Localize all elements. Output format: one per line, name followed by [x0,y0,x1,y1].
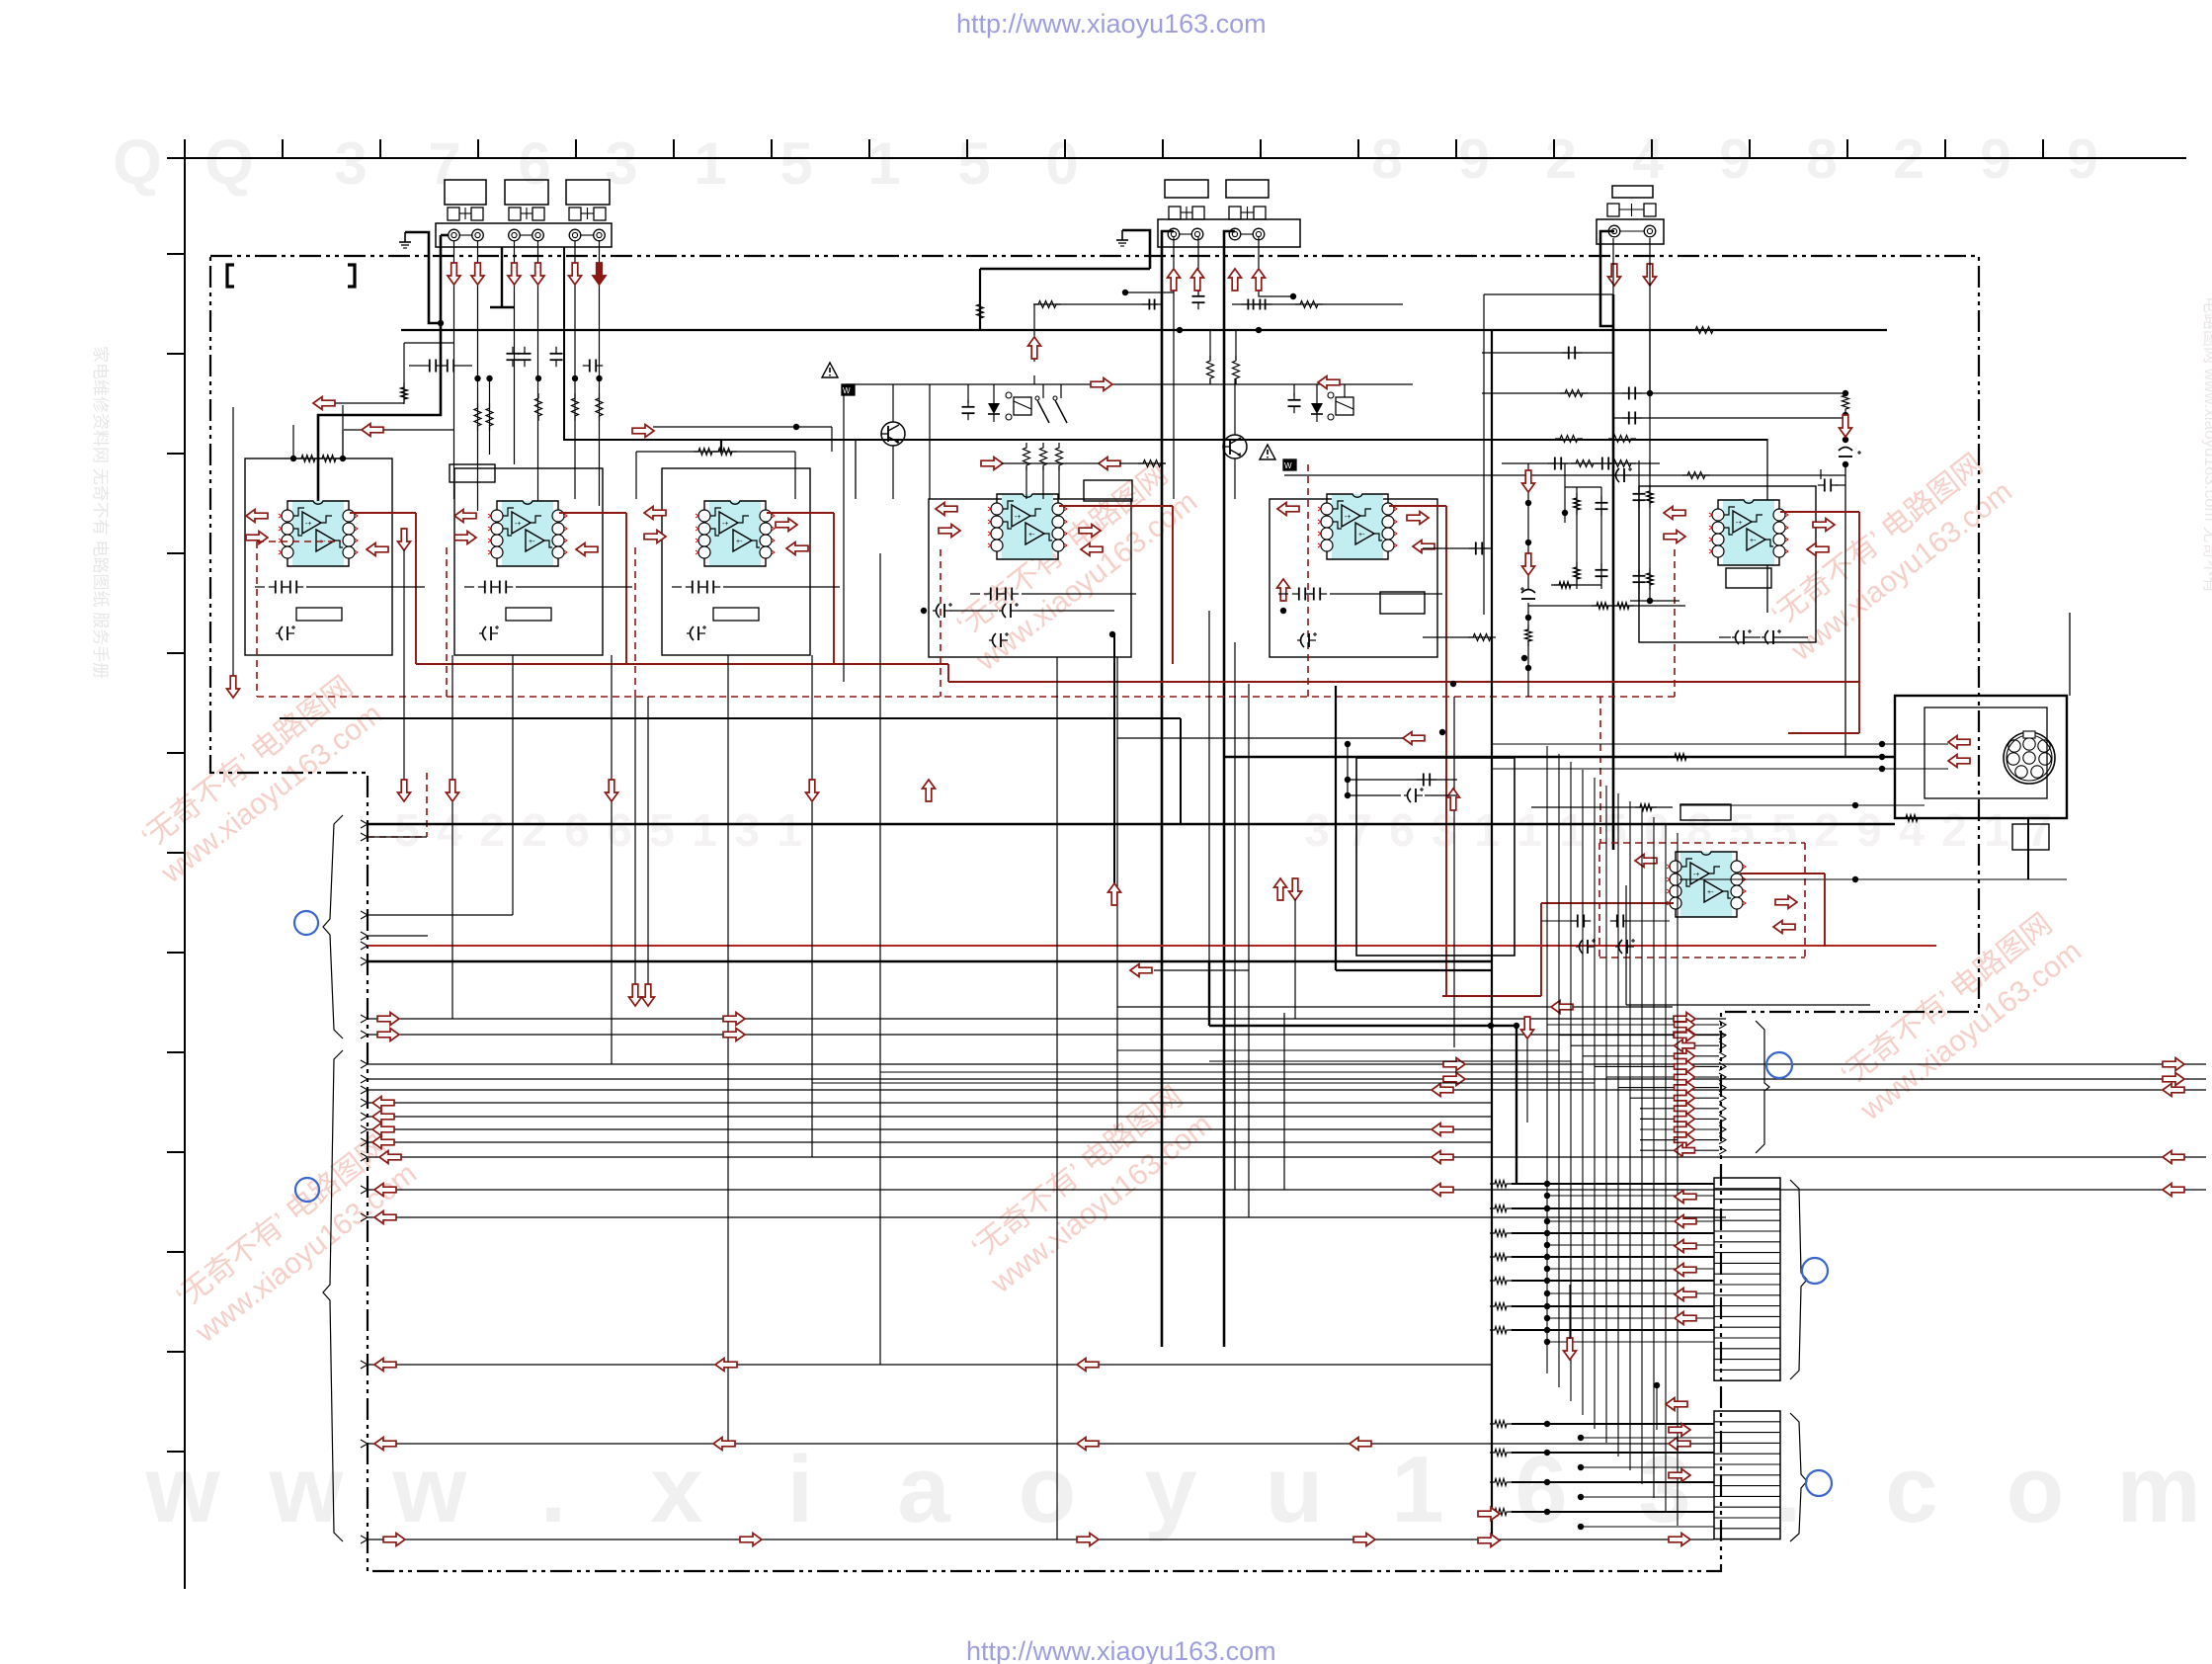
connector CN301 body [1597,219,1664,244]
red wire U3 out [767,512,834,514]
signal arrows below CN101 [448,263,460,285]
wire jack A1 drop thick [441,234,449,237]
label box IC1 [296,608,342,621]
svg-text:4: 4 [1899,804,1925,856]
bus row y1171 [368,1156,2206,1158]
capacitor C-1850 [1824,479,1826,492]
svg-text:5: 5 [957,130,990,197]
resistor R-1588 [1555,436,1583,443]
label box IC6 [1726,568,1771,588]
chevron column to brace [1640,1024,1719,1026]
resistor column under CN101 [474,403,481,431]
resistor R-1622 [1592,603,1613,610]
relay RY1 [1014,397,1031,415]
svg-text:+-: +- [736,539,743,545]
svg-text:c: c [1885,1437,1937,1542]
relay RY3 [1336,397,1353,415]
resistor R-1868 [1843,390,1849,414]
red wire U1 out [350,512,416,514]
capacitor C-1621a [1596,502,1608,504]
resistor R-1717 [1682,472,1710,479]
red wire U2 out [559,512,626,514]
wire relay3 feeds [1293,384,1295,396]
capacitor C-430 [429,360,431,373]
junction dots A1 top [290,456,296,461]
capacitor C-1266 [1247,299,1249,310]
svg-text:+-: +- [1750,538,1757,544]
warning triangle 1 [822,363,838,377]
signal arrow down x1547b [1522,553,1535,575]
ground GND-B [1121,230,1123,240]
svg-text:Q: Q [205,126,254,198]
capacitors mid y618 [937,604,941,618]
bus row y926 [368,914,513,916]
wire thick x508 [501,247,503,307]
label box DIN [2012,824,2049,850]
amp block box A3 [662,468,810,655]
red dashed riser 2 [1307,464,1309,697]
red wire U7 out [1740,873,1825,874]
watermark red diagonal 6 [1830,903,2088,1127]
wire drop x519 [512,655,514,915]
wire 941 drop [929,384,931,499]
bus row y834 thick [368,823,1895,825]
red dashed border bottom [257,696,1675,698]
capacitor C-B2 [1192,295,1205,297]
wire CN301 pin2 drop [1649,238,1651,474]
transistor Q1 [881,422,905,446]
op-amp U5 [1332,494,1383,559]
resistor R-1593 [1560,390,1588,397]
svg-text:http://www.xiaoyu163.com: http://www.xiaoyu163.com [956,9,1267,39]
wire y457 res pair [636,451,795,453]
resistor R-1596b [1574,562,1581,584]
wire thick y272 [980,268,1150,271]
resistor R-334 [1690,327,1718,334]
wire drop x458 [451,655,453,1019]
svg-text:3: 3 [1432,804,1457,856]
connector CN101 jack circles [449,229,460,241]
wire drop x1131 [1116,657,1118,1129]
svg-text:6: 6 [518,130,550,197]
wire y469 mid [1002,462,1100,464]
svg-text:W: W [843,386,851,395]
svg-text:x: x [650,1437,702,1542]
wire drop x1300 [1283,1013,1285,1190]
bus row y1143 [368,1128,1492,1130]
resistor R-444 [1608,436,1636,443]
bus row y1204 [368,1189,2206,1191]
capacitors C-row A2 [484,581,486,594]
signal arrow stub2 [362,424,383,437]
capacitor C-1868 [1839,448,1852,452]
capacitors below U6 [1736,630,1740,644]
watermark red diagonal 1 [130,666,388,890]
svg-text:o: o [2007,1437,2065,1542]
svg-text:1: 1 [1559,804,1585,856]
junction dot x1677 [1654,1382,1660,1388]
watermark red diagonal 4 [960,1076,1218,1300]
signal arrows below CN301 [1608,264,1621,286]
resistor R-1596a [1574,493,1581,515]
bus row y947 [368,935,428,937]
signal arrows U4 [936,503,957,516]
svg-text:i: i [787,1437,814,1542]
wire drop x1264 [1248,684,1250,1217]
wire y613 [1528,605,1685,607]
wire x1311 [1294,899,1296,1019]
board outline dash-dot border [210,256,1979,1571]
DIN inner box [1925,707,2047,798]
wire jack B1 drop [1173,237,1175,499]
wire y645 stub [1423,636,1493,638]
signal arrows up-down pair mid [1274,878,1287,900]
capacitor C-U7a [1577,915,1579,928]
board name bracket left [227,265,234,287]
bus row y1077 [368,1063,2206,1065]
capacitors C-row A5 [1298,588,1300,601]
connector CN301 jack circles [1608,225,1620,237]
red wire U4 out [1059,505,1173,507]
wire drop x643 [634,697,636,986]
signal arrow down x1546 [1521,1017,1534,1039]
DIN pin circles [2008,740,2020,752]
op-amp U1 [292,501,344,566]
ground GND-A [404,232,406,242]
wire y555 stub [1423,547,1493,549]
comb CN602 feed rows [1490,1421,1512,1428]
wire x1128 vertical [1113,634,1115,884]
svg-text:5: 5 [394,804,420,856]
op-amp U4 [1002,494,1053,559]
connector pin squares group B [1169,207,1181,219]
svg-text:1: 1 [1474,804,1500,856]
capacitor C-1659b [1633,575,1646,577]
svg-text:1: 1 [1516,804,1542,856]
wire right small cluster [1638,460,1640,601]
svg-text:5: 5 [1729,804,1755,856]
signal arrow up x1471 [1447,789,1460,810]
sw box 1 [842,384,855,395]
resistor trio mid [1024,443,1030,470]
brace comb CN602 [1790,1413,1807,1541]
resistor R-409 [401,382,408,404]
junction dots DIN lower [1852,802,1858,808]
wire drop x1352 [1335,686,1337,970]
wire bus y469 [1502,462,1660,464]
bus staircase verticals upper [1546,746,1548,1373]
wire arrow stub1 [333,402,404,404]
page connector circle 4 [1802,1258,1828,1284]
wire drop x1070 [1056,657,1058,1539]
capacitor C-mid1 [962,406,975,408]
resistor R-299 [1033,301,1061,308]
resistor R-1251 [1233,356,1240,383]
svg-text:-+: -+ [1736,520,1742,527]
svg-text:2: 2 [479,804,505,856]
connector comb CN602 [1714,1411,1780,1539]
resistor R102 [317,456,341,462]
capacitor C-U7b [1616,915,1618,928]
signal arrow left col down [227,676,240,698]
wire arrow stub2 [344,429,363,431]
signal arrow down right [1840,415,1852,437]
svg-text:8: 8 [1686,804,1712,856]
signal arrows U3 [644,507,666,520]
red bus bottom long [368,945,1936,947]
wire sw1 drop [843,393,845,682]
connector CN101 body [436,223,612,247]
red dashed riser 3 [1674,549,1676,697]
signal arrow left y982 [1130,964,1152,977]
resistor R-1643 [1612,603,1634,610]
wire x1047 drop [1033,304,1035,362]
signal arrows comb CN602 [1666,1398,1687,1411]
signal arrow up x940 [923,780,936,801]
sw box 2 [1283,459,1296,470]
connector CN201 body [1158,219,1300,247]
wire 2095 drop [2069,613,2071,696]
svg-text:w: w [145,1437,220,1542]
red dashed riser 1 [940,549,942,697]
resistor R-DIN [1901,815,1923,822]
signal arrows U1 [246,510,268,523]
red dashed border left [256,541,258,697]
junction dots DIN feeds [1879,741,1885,747]
svg-text:-+: -+ [1015,514,1021,521]
page connector circle 5 [1806,1470,1832,1496]
label box J201 [1165,180,1208,198]
signal arrow down x1589 [1564,1338,1577,1360]
label box J202 [1226,180,1269,198]
svg-text:家电维修资料网 无奇不有 电路图纸 服务手册: 家电维修资料网 无奇不有 电路图纸 服务手册 [91,346,110,679]
bus row y1031 [368,1018,1726,1020]
wire DIN feeds [1491,743,1948,745]
page connector circle 2 [295,1178,319,1202]
DIN outer box [1895,696,2067,818]
capacitor C-563 [550,353,563,355]
wire left col [232,407,234,680]
svg-text:2: 2 [1941,804,1967,856]
wire bus y481 [1284,474,1845,476]
red wire U6 out [1780,511,1859,513]
wire bus y727 thick [280,717,1181,719]
svg-text:-+: -+ [722,521,728,528]
wire U7 caps [1541,920,1571,922]
brace left upper [323,815,343,1039]
wire y423 [1613,417,1845,419]
svg-text:+-: +- [1358,532,1365,539]
label box IC2 [506,608,551,621]
switch SW1 [1037,400,1049,423]
bus row y1130 [368,1116,1492,1118]
svg-text:W: W [1284,461,1292,470]
svg-text:3: 3 [334,130,367,197]
bus row y1156 [368,1141,1492,1143]
svg-text:a: a [897,1437,950,1542]
wire drop x1224 [1208,611,1210,961]
op-amp U6 [1723,500,1774,565]
signal arrow x822 [806,780,819,801]
resistor R-1325 [1295,301,1323,308]
warning triangle 2 [1260,445,1275,459]
wire bus y308 right [1232,303,1403,305]
svg-text:1: 1 [694,130,726,197]
wire x1589 stub [1569,1285,1571,1339]
svg-text:m: m [2116,1437,2200,1542]
svg-text:u: u [1266,1437,1324,1542]
transistor Q2 [1223,435,1247,458]
amp block box A6 [1639,486,1816,642]
bus row y1103 [368,1089,2206,1091]
page connector circle 1 [294,911,318,935]
wire Q2 leads [1234,378,1236,435]
svg-text:0: 0 [1045,130,1078,197]
wire relay cluster top [967,384,969,403]
wire y817 [1531,806,1673,808]
wire U7 box [1625,885,1627,1005]
svg-text:2: 2 [522,804,547,856]
wire drop x619 [611,655,613,1064]
red dashed riser 1b [446,547,448,697]
junction dots jack wires [438,320,444,326]
wire Q1 leads [892,384,894,422]
wire DIN lower rows [1679,804,1925,806]
label box U7 upper [1680,804,1731,820]
resistor R-1547 [1525,624,1532,646]
capacitor C-1652a [1628,387,1630,400]
wire thick vertical bus B1 [1162,231,1174,1347]
signal arrow x409 [398,780,411,801]
connector pin squares group A [448,208,459,220]
junction dots on y334 [1177,327,1183,333]
wire A1 risers [292,425,294,458]
signal arrows U2 [454,510,476,523]
bus row y1232 [368,1216,1726,1218]
connector pin squares group C [1607,204,1619,216]
svg-text:5: 5 [1771,804,1797,856]
ruler left tick marks [167,253,185,255]
signal arrow R-1004-469 [981,458,1003,470]
wire jack B4 drop [1259,237,1293,296]
svg-text:4: 4 [437,804,462,856]
svg-text:1: 1 [692,804,717,856]
wire x1670 riser [1649,330,1651,393]
wire bus y389 [846,383,1413,385]
svg-text:1: 1 [1391,1437,1443,1542]
wire right drop 1789 [1766,439,1768,613]
label box upper IC2 [450,464,495,482]
bus row y1461 [368,1443,1714,1445]
wire jack A outputs drop [453,241,455,499]
capacitor C-1621b [1596,569,1608,571]
signal arrows DIN [1948,736,1970,749]
resistor R-1225 [1207,356,1214,383]
capacitor C-600 [589,360,591,373]
svg-text:9: 9 [1856,804,1882,856]
watermark red diagonal 2 [165,1125,423,1350]
wire y296 stub [1125,291,1174,293]
signal arrow x458 [447,780,459,801]
svg-text:6: 6 [607,804,632,856]
op-amp U2 [502,501,553,566]
svg-text:-+: -+ [1693,872,1699,878]
wire bus y308 [1034,303,1158,305]
resistor R-1670a [1647,486,1654,508]
wire drop x1472 [1453,697,1455,1047]
svg-text:Q: Q [113,126,162,198]
label box IC4 [1084,480,1132,501]
wire drop x656 [647,697,649,986]
wire comb rail [1491,330,1493,1541]
wire jack B2 drop [1197,237,1199,292]
bus row y1116 [368,1102,1492,1104]
board name bracket right [348,265,355,287]
resistor R101 [296,456,320,462]
junction dots x1547 [1525,500,1531,506]
wire thick x571 [564,247,1767,440]
svg-text:3: 3 [734,804,760,856]
bus rows into staircase [1117,1049,1559,1051]
svg-text:+-: +- [1028,532,1035,539]
wire x1546 lower [1526,1038,1528,1123]
label box J102 [505,180,548,205]
signal arrow left y748 [1403,732,1425,745]
svg-text:6: 6 [1389,804,1415,856]
connector CN201 jack circles [1168,228,1180,240]
signal arrow R-1115-389 [1091,378,1112,391]
resistor R-469 [1608,460,1636,467]
signal arrow L-1123-469 [1099,458,1120,470]
wire DIN vert [2027,818,2029,879]
capacitor C-1577 [1554,458,1556,470]
wire x1547 chain [1527,463,1529,476]
signal arrows below CN201 [1168,269,1181,291]
brace comb CN601 [1790,1180,1807,1379]
svg-text:5: 5 [779,130,812,197]
U7 left caps [1347,744,1349,795]
label box IC3 [713,608,759,621]
svg-text:-+: -+ [1345,514,1351,521]
red dashed stub lower [426,773,428,837]
signal arrow L-1581-1019 [1551,1001,1573,1014]
resistor R-1584 [1554,582,1576,589]
comb CN601 feed rows [1490,1181,1512,1188]
wire thick vertical bus B2 [1224,231,1235,1347]
wire drop x1250 [1234,642,1236,1190]
capacitor C-1547 [1521,590,1535,594]
wire y357 [1482,352,1613,354]
bus row y1019 [1117,1006,1673,1008]
wire CN301 pin1 thin [1612,238,1614,294]
bus row y1558 [368,1539,1714,1540]
svg-text:-+: -+ [305,521,311,528]
signal arrow x619 [606,780,618,801]
page connector circle 3 [1766,1052,1792,1078]
svg-text:7: 7 [1347,804,1372,856]
signal arrows U5 [1277,503,1299,516]
signal arrow right mid [632,425,654,438]
svg-text:w: w [392,1437,467,1542]
svg-text:2: 2 [1814,804,1840,856]
comb CN601 feed rows thin [1547,1195,1714,1197]
wire stub right mid [653,426,832,428]
wire drop x891 [879,553,881,1365]
signal arrows U6 [1664,507,1685,520]
red dashed box U7 [1599,697,1601,843]
signal arrows U7 [1635,855,1657,868]
amp block box A5 [1270,499,1437,657]
